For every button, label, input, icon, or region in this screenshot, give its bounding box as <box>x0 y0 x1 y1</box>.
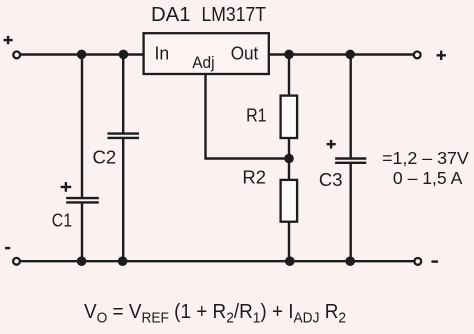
junction dot C3 bottom <box>345 256 355 266</box>
svg-text:R2: R2 <box>242 166 266 187</box>
svg-text:LM317T: LM317T <box>202 3 267 26</box>
wire C2 branch upper <box>122 55 124 134</box>
svg-text:In: In <box>155 43 170 64</box>
node - output terminal <box>414 258 421 265</box>
wire R2 bottom lead <box>288 222 290 262</box>
svg-text:C3: C3 <box>319 169 343 190</box>
svg-text:Out: Out <box>231 44 259 64</box>
label C3 <box>319 169 343 190</box>
label + at C1 <box>61 182 72 192</box>
svg-text:=1,2 – 37V: =1,2 – 37V <box>382 148 469 168</box>
label R2 <box>242 166 266 187</box>
label output current range <box>393 168 463 188</box>
svg-text:C1: C1 <box>52 211 72 231</box>
wire C3 branch upper <box>350 55 352 159</box>
label LM317T <box>202 3 267 26</box>
junction dot C2 top <box>119 50 129 60</box>
label C2 <box>93 147 117 168</box>
node + output terminal <box>414 52 421 59</box>
label + at output terminal <box>437 51 447 60</box>
junction dot C1 bottom <box>77 256 87 266</box>
junction dot R2 bottom <box>285 256 295 266</box>
pin Adj <box>192 54 214 72</box>
node + input terminal <box>13 52 20 59</box>
junction dot C2 bottom <box>118 256 128 266</box>
pin Out <box>231 44 259 64</box>
label - at input terminal <box>5 247 10 249</box>
resistor R1 <box>281 96 298 138</box>
svg-text:C2: C2 <box>93 147 117 168</box>
pin In <box>155 43 170 64</box>
label output voltage formula <box>84 301 346 327</box>
wire R1 top lead <box>288 55 290 96</box>
label - at output terminal <box>431 260 438 262</box>
label output voltage range <box>382 148 469 168</box>
wire R1 bottom to R2 top <box>288 138 290 180</box>
node - input terminal <box>13 258 20 265</box>
capacitor C2 plates <box>107 134 139 138</box>
wire C3 branch lower <box>350 164 352 261</box>
svg-text:DA1: DA1 <box>151 3 191 26</box>
capacitor C1 plates <box>66 198 99 202</box>
wire C1 branch lower <box>81 203 83 261</box>
junction dot C3 top <box>345 50 355 60</box>
wire Adj pin to divider node <box>206 74 286 159</box>
svg-text:0 – 1,5 A: 0 – 1,5 A <box>393 168 463 188</box>
capacitor C3 plates <box>335 159 366 163</box>
svg-text:R1: R1 <box>246 104 267 125</box>
junction dot Adj node <box>284 154 294 164</box>
wire C2 branch lower <box>122 139 124 261</box>
label + at C3 <box>327 140 336 149</box>
label + at input terminal <box>4 36 13 44</box>
label R1 <box>246 104 267 125</box>
resistor R2 <box>281 180 298 222</box>
junction dot C1 top <box>77 50 87 60</box>
op-amp U1 regulator DA1 LM317T box <box>144 33 269 74</box>
wire C1 branch upper <box>81 55 83 198</box>
label C1 <box>52 211 72 231</box>
wire output rail <box>269 53 413 55</box>
wire input rail <box>21 53 144 55</box>
svg-text:Adj: Adj <box>192 54 214 72</box>
junction dot R1 top <box>284 50 294 60</box>
svg-text:VO = VREF (1 + R2/R1) + IADJ R: VO = VREF (1 + R2/R1) + IADJ R2 <box>84 301 346 327</box>
wire ground rail <box>21 260 414 262</box>
label DA1 <box>151 3 191 26</box>
